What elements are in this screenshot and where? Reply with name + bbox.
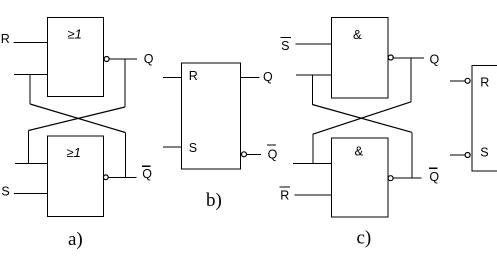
wire S input of latch block — [163, 146, 182, 148]
wire feedback vertical into D1.2 first input — [28, 131, 30, 164]
wire S-bar input — [296, 43, 332, 45]
wire Q feedback diagonal — [313, 102, 411, 134]
label Q-bar — [429, 168, 440, 184]
svg-text:R: R — [280, 189, 289, 203]
wire DD1.1 second input (feedback from Q-bar) — [296, 74, 331, 76]
svg-text:≥1: ≥1 — [67, 145, 81, 160]
svg-text:S: S — [480, 145, 488, 159]
inversion bubble R input DD2 — [465, 78, 470, 83]
wire Q feedback vertical — [410, 58, 412, 102]
wire Q feedback diagonal — [29, 107, 126, 131]
wire D1.2 first input — [15, 162, 48, 164]
label S-bar input — [280, 38, 291, 53]
label Q-bar — [267, 145, 278, 161]
label Q-bar — [142, 166, 153, 181]
svg-text:Q: Q — [268, 147, 278, 161]
wire R-bar input — [294, 194, 331, 196]
svg-text:R: R — [480, 75, 489, 89]
wire Q-bar output of DD1.2 — [393, 177, 421, 179]
svg-text:Q: Q — [429, 170, 439, 184]
svg-text:Q: Q — [142, 167, 152, 181]
svg-text:c): c) — [357, 228, 372, 249]
inversion bubble Q-bar output — [242, 152, 247, 157]
label R-bar input — [280, 187, 290, 203]
wire Q-bar feedback vertical — [124, 133, 126, 178]
wire Q output of latch block — [241, 77, 260, 79]
svg-text:&: & — [353, 27, 362, 42]
svg-text:≥1: ≥1 — [68, 27, 82, 42]
wire S-bar input of DD2 — [450, 154, 465, 156]
wire R-bar input of DD2 — [450, 80, 465, 82]
wire D1.1 second input (feedback from Q-bar) — [14, 74, 48, 76]
OR gate D1.1 (>=1) — [48, 18, 104, 97]
wire Q-bar output of D1.2 — [108, 176, 136, 178]
svg-text:a): a) — [68, 229, 83, 250]
wire feedback vertical into DD1.2 first input — [312, 134, 314, 163]
wire Q-bar feedback vertical — [411, 132, 413, 178]
svg-text:R: R — [189, 69, 198, 83]
wire feedback vertical into D1.1 second input — [29, 75, 31, 105]
wire Q feedback vertical — [124, 59, 126, 107]
SR latch block DD2 (partial, clipped at right edge) — [472, 65, 497, 171]
wire Q output of DD1.1 — [393, 57, 424, 59]
wire Q-bar output of latch block — [247, 153, 261, 155]
svg-text:R: R — [1, 32, 10, 46]
wire Q-bar feedback diagonal — [30, 104, 125, 133]
AND gate DD1.1 (&) — [331, 18, 388, 98]
svg-text:S: S — [281, 39, 289, 53]
svg-text:Q: Q — [430, 53, 440, 67]
inversion bubble S input DD2 — [465, 153, 470, 158]
inversion bubble DD1.1 output — [388, 55, 393, 60]
svg-text:Q: Q — [263, 70, 273, 84]
svg-text:S: S — [1, 185, 9, 199]
svg-text:S: S — [189, 141, 197, 155]
wire feedback vertical into DD1.1 second input — [311, 75, 313, 105]
AND gate DD1.2 (&) — [331, 138, 388, 217]
svg-text:Q: Q — [144, 52, 154, 66]
wire DD1.2 first input — [293, 162, 331, 164]
OR gate D1.2 (>=1) — [48, 136, 104, 217]
inversion bubble DD1.2 output — [388, 176, 393, 181]
wire R input of latch block — [163, 76, 182, 78]
inversion bubble D1.2 output — [103, 175, 108, 180]
wire Q-bar feedback diagonal — [312, 105, 412, 133]
svg-text:&: & — [355, 144, 364, 159]
inversion bubble D1.1 output — [104, 57, 109, 62]
SR latch block DD1 — [182, 63, 241, 169]
svg-text:b): b) — [206, 190, 222, 211]
wire Q output of D1.1 — [109, 58, 137, 60]
wire S input — [14, 193, 48, 195]
wire R input — [13, 41, 47, 43]
